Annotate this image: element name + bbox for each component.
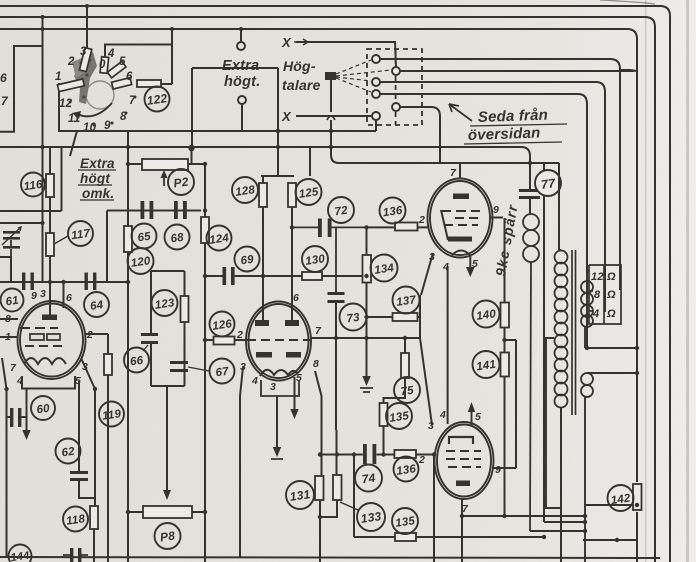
capacitor 74 [363, 444, 376, 464]
svg-text:omk.: omk. [82, 186, 114, 201]
secondary upper leads [585, 271, 589, 348]
wire left loop to x45 [0, 46, 43, 132]
svg-text:högt: högt [80, 171, 110, 186]
svg-text:144: 144 [10, 550, 30, 562]
svg-text:Ω: Ω [606, 271, 616, 283]
V3 pin5 ground arrow [469, 256, 471, 271]
wire speaker line y71 to 637 [400, 70, 634, 72]
label circle 136b [394, 457, 419, 482]
resistor 135a [380, 403, 388, 426]
wire vertical x172 [171, 29, 173, 84]
resistor 128 [259, 183, 267, 207]
bus y131 [59, 130, 376, 132]
svg-text:X: X [281, 35, 292, 50]
label circle 124 [207, 226, 232, 251]
dot contact marks [69, 96, 137, 127]
V3 pin9 wire [491, 217, 503, 219]
wire vertical x278 [277, 68, 279, 176]
trimmer capacitor left edge 2 [3, 246, 20, 249]
label Extra hogt [222, 58, 260, 90]
svg-text:66: 66 [129, 355, 144, 369]
tube V1 grid dashes [20, 328, 66, 364]
svg-text:4: 4 [592, 308, 599, 320]
capacitor 66 [141, 333, 158, 344]
wire vertical x263 [262, 176, 264, 320]
resistor 130 [302, 272, 322, 280]
svg-text:2: 2 [236, 329, 243, 341]
label circle 119 [99, 402, 124, 427]
tube V2 grid dash row [247, 339, 310, 341]
svg-text:122: 122 [146, 91, 168, 108]
capacitor 64 [85, 273, 97, 291]
svg-text:4: 4 [107, 48, 115, 60]
faint scan streak [645, 0, 646, 562]
wire y537 right tail [434, 536, 544, 538]
wire 140/141 node to x516 [505, 339, 517, 341]
switch hatched sector [74, 52, 97, 104]
svg-text:1: 1 [55, 71, 62, 83]
output taps box [589, 265, 621, 324]
wire speaker line y94 to x587 [380, 94, 587, 348]
V4 pin7 wire [461, 498, 463, 562]
svg-text:talare: talare [282, 77, 321, 93]
label circle 120 [128, 248, 154, 274]
wire switch to label [70, 131, 77, 156]
capacitor 61 [22, 273, 34, 291]
scan edge streak right [686, 0, 689, 562]
label circle P2 [168, 169, 194, 195]
wire x191.5 drop to P2 lead [191, 148, 193, 164]
wire x559 to transformer primary [558, 163, 560, 250]
svg-text:64: 64 [89, 299, 104, 313]
wire switchbox right to node [192, 67, 278, 69]
label circle 64 [84, 292, 109, 317]
resistor 137 [393, 313, 418, 321]
svg-text:2: 2 [418, 214, 425, 226]
capacitor 67 [170, 361, 188, 372]
resistor 120 [124, 226, 132, 252]
V2 cathode wire + ground [276, 396, 278, 449]
wire node y176 [261, 175, 294, 177]
svg-text:översidan: översidan [468, 124, 541, 144]
label circle 135a [386, 403, 412, 429]
tube V3 grid rows [441, 210, 480, 240]
V2 pin5 ground [294, 377, 296, 411]
speaker element [325, 72, 336, 80]
resistor 124 [201, 217, 209, 243]
label circle 66 [124, 348, 149, 373]
wire vertical x310 [309, 147, 311, 176]
tube V2 cathode bars [256, 352, 272, 358]
wire vertical x128 [127, 131, 129, 562]
resistor 116 [46, 174, 54, 197]
wire x354 down [354, 455, 434, 562]
svg-text:11: 11 [68, 113, 80, 125]
V2 cathode box below [261, 380, 299, 396]
tube V2 pin labels [236, 292, 322, 393]
label circle 136 [380, 198, 406, 224]
capacitor bottom edge left [70, 548, 81, 562]
wire y348 [585, 347, 637, 349]
wire resistor122 to x172 [160, 83, 172, 85]
leader 133 [340, 502, 358, 510]
wire node y516 to transformer [462, 515, 585, 517]
resistor 122 [137, 80, 161, 87]
svg-text:9: 9 [493, 204, 499, 216]
label circle 118 [63, 507, 88, 532]
label circle 74 [355, 465, 382, 492]
svg-text:P2: P2 [173, 174, 190, 190]
resistor 75 [401, 353, 409, 378]
svg-text:62: 62 [61, 446, 76, 460]
svg-text:P8: P8 [159, 528, 176, 544]
svg-text:3: 3 [428, 420, 434, 432]
tube V1 heater humps [24, 358, 66, 364]
svg-text:6: 6 [293, 292, 299, 304]
switch rotor arrow [77, 103, 112, 116]
tube V4 pin labels [418, 409, 501, 515]
wire vertical x107 heater [107, 334, 109, 562]
V4 pin5 up arrow [471, 408, 473, 425]
svg-text:65: 65 [137, 231, 152, 245]
label circle 67 [210, 359, 235, 384]
label circle 128 [232, 177, 258, 203]
label circle 65 [132, 224, 157, 249]
secondary lower leads [585, 373, 637, 562]
tube V1 anode [42, 315, 57, 321]
capacitor 72 [318, 219, 332, 238]
V2 shield wire left [240, 367, 243, 557]
svg-text:68: 68 [170, 232, 185, 246]
wire extra-hogt bottom terminal [241, 104, 243, 131]
label circle 75 [394, 377, 420, 403]
svg-text:7: 7 [450, 167, 457, 179]
svg-text:67: 67 [215, 366, 230, 380]
svg-text:8: 8 [313, 358, 319, 370]
wire x107 drop [106, 211, 108, 283]
svg-text:Hög-: Hög- [283, 58, 316, 74]
svg-text:60: 60 [36, 403, 51, 417]
svg-text:3: 3 [270, 381, 276, 393]
wire vertical x205 [204, 164, 206, 562]
wire P8 wiper riser [166, 386, 168, 492]
svg-text:högt.: högt. [224, 74, 260, 90]
label circle 116 [21, 173, 45, 197]
V1 pin wires [0, 282, 108, 557]
svg-text:9: 9 [495, 464, 501, 476]
tube V2 envelope [246, 302, 311, 381]
svg-text:X: X [281, 109, 292, 124]
wire node y276 [205, 275, 367, 277]
label circle 61 [1, 289, 24, 312]
Extra hogt terminal bottom [238, 96, 246, 104]
tube V3 anode top cap [453, 194, 469, 200]
wire v3 pin2 [367, 226, 430, 228]
label circle 133 [357, 503, 385, 531]
transformer secondary upper [581, 281, 593, 327]
X wire top [296, 42, 396, 67]
wire left stub y223 [0, 222, 43, 224]
wire vertical x45 [42, 17, 44, 282]
tube V4 cathode [456, 481, 470, 487]
transformer primary ends [559, 250, 561, 562]
label circle 69 [235, 247, 260, 272]
svg-text:69: 69 [240, 254, 255, 268]
label circle 140 [473, 301, 500, 328]
transformer core [572, 250, 576, 415]
V2 shield wire right [315, 371, 322, 476]
capacitor 69 [223, 267, 235, 285]
svg-text:2: 2 [67, 56, 75, 68]
label circle 125 [296, 179, 322, 205]
svg-text:9: 9 [31, 290, 37, 302]
svg-text:7: 7 [1, 94, 9, 108]
svg-text:9: 9 [104, 120, 111, 132]
wire y522 [544, 521, 585, 523]
wire jut 620 to 637 with pointed junction [620, 70, 637, 71]
resistor 123 [181, 296, 189, 322]
svg-text:5: 5 [119, 56, 126, 68]
V3 pin4 wire down to V4 [447, 266, 449, 424]
svg-text:Ω: Ω [606, 289, 616, 301]
wire V4 pin3 diagonal [420, 338, 432, 425]
label circle 62 [56, 439, 81, 464]
label circle 68 [165, 225, 190, 250]
svg-text:133: 133 [360, 509, 382, 526]
tube V1 pin labels [5, 288, 93, 387]
wire chain x50 [49, 147, 51, 316]
resistor 136 [395, 223, 418, 231]
svg-text:0: 0 [99, 59, 106, 71]
bottom border line [0, 557, 660, 558]
speaker dashed leads [336, 60, 391, 92]
label circle 142 [608, 485, 634, 511]
tube V3 heater bump [452, 251, 470, 256]
switch contact bars [57, 48, 131, 92]
label Seda fran oversidan [468, 107, 549, 144]
svg-text:131: 131 [289, 487, 311, 504]
wire speaker line y82 to x605 [380, 82, 605, 312]
border line 3 [0, 29, 637, 482]
label circle 122 [145, 87, 170, 112]
wire node y454 [320, 454, 433, 456]
wire cap62 to resistor118 [79, 481, 94, 562]
svg-text:61: 61 [5, 295, 20, 309]
box around 123/66 [151, 271, 185, 386]
label circle 130 [302, 246, 328, 272]
wire vertical x87 [86, 6, 88, 55]
tube V3 envelope [428, 179, 493, 258]
svg-text:7: 7 [10, 362, 17, 374]
label circle 73 [340, 304, 367, 331]
speaker terminal circles [372, 55, 400, 120]
wire V2 pin7 row y338 [311, 337, 420, 339]
node wire y210.5 [107, 210, 201, 212]
resistor 133 [333, 475, 342, 500]
tube V2 heater humps [260, 370, 297, 376]
svg-text:6: 6 [66, 292, 72, 304]
transformer primary winding [555, 251, 568, 408]
Extra hogt terminal top [237, 42, 245, 50]
wire cap73 down [335, 303, 337, 430]
wire y540 lower right [583, 539, 637, 541]
svg-text:4: 4 [439, 409, 446, 421]
V4 pin9 wire [492, 340, 516, 468]
P2 wiper arrow [163, 174, 165, 186]
svg-text:7: 7 [315, 325, 322, 337]
resistor 126 [214, 337, 235, 345]
ground arrow below 134 [362, 376, 370, 386]
potentiometer P8 [143, 506, 192, 518]
tube V2 anodes [255, 320, 269, 326]
svg-text:3: 3 [80, 46, 87, 58]
border line 1b cut corner from scan top [600, 0, 655, 4]
bus y147 [0, 147, 530, 163]
V3 pin3 wire [421, 253, 433, 295]
resistor 134 [363, 255, 372, 283]
label circle P8 [155, 523, 181, 549]
resistor 141 [501, 353, 510, 377]
wire left stub y257 [0, 257, 11, 282]
resistor 140 [501, 303, 510, 328]
capacitor 62 [70, 471, 88, 481]
label Extra hogt omk box [78, 156, 116, 201]
resistor 135b [395, 533, 416, 541]
label circle 123 [152, 290, 178, 316]
label circle 141 [473, 351, 500, 378]
X wire bottom [296, 115, 372, 117]
resistor 125 [288, 183, 296, 207]
seda arrow [449, 104, 472, 121]
ground arrow below cap60 [22, 430, 30, 440]
V3 anode wire [339, 163, 559, 424]
svg-text:Extra: Extra [80, 156, 115, 171]
wire extra-hogt top terminal [240, 29, 242, 42]
svg-text:Ω: Ω [606, 308, 616, 320]
wire bus131 up to C6 [375, 120, 377, 131]
junction node anode/trap [528, 161, 532, 165]
secondary taps to box [589, 291, 593, 311]
wire y531 [530, 530, 585, 532]
label circle 126 [210, 312, 235, 337]
speaker plug dashed box [367, 49, 422, 125]
svg-text:8: 8 [594, 289, 601, 301]
svg-text:72: 72 [334, 205, 349, 219]
resistor 136b [394, 450, 416, 458]
wire contact4 riser [105, 45, 172, 61]
wire y505 [585, 504, 637, 506]
svg-text:6: 6 [126, 71, 133, 83]
label circle 135b [392, 508, 418, 534]
resistor 118 [90, 506, 98, 529]
wire x544 riser [543, 163, 545, 522]
svg-text:12: 12 [591, 271, 604, 283]
label circle 60 [31, 396, 55, 420]
svg-text:3: 3 [40, 288, 46, 300]
switch box outline [59, 68, 192, 148]
svg-text:7: 7 [462, 503, 469, 515]
wire C5 to seda [400, 107, 440, 163]
svg-text:74: 74 [361, 471, 377, 487]
resistor 131 [315, 476, 324, 500]
transformer primary tap [546, 338, 561, 508]
svg-text:4: 4 [251, 375, 258, 387]
inductor 9kc trap coil [523, 214, 539, 531]
potentiometer P2 [142, 159, 188, 170]
svg-text:Extra: Extra [222, 58, 259, 74]
svg-text:75: 75 [400, 385, 415, 399]
wire left stub y211 [0, 147, 62, 211]
tube V3 cathode [448, 237, 472, 242]
capacitor 65 [141, 201, 154, 219]
label circle 144 bottom left [9, 545, 32, 562]
resistor 119 [104, 354, 112, 375]
capacitor 60 [10, 408, 21, 427]
tube V3 pin labels [418, 167, 499, 273]
svg-text:12: 12 [59, 98, 73, 110]
transformer secondary lower [581, 373, 593, 397]
label circle 134 [371, 255, 398, 282]
rotary switch S1 [86, 81, 114, 109]
wire speaker line to x620 [380, 59, 620, 290]
tube V4 envelope [435, 422, 494, 499]
svg-text:Seda från: Seda från [478, 107, 549, 126]
wire 125 down to V2 pin6 [291, 207, 293, 320]
tube V4 top anode bracket [449, 437, 473, 444]
resistor 117 [46, 233, 54, 256]
bus y282 [0, 281, 128, 283]
svg-text:2: 2 [418, 454, 425, 466]
label Hog-talare [282, 58, 321, 93]
border line 3 lower continues below resistor 142 [636, 512, 638, 562]
label circle 77 [535, 170, 561, 196]
svg-text:5: 5 [475, 411, 481, 423]
tube V4 grids [446, 451, 481, 467]
label circle 72 [328, 197, 354, 223]
speaker drop wire [296, 42, 440, 163]
switch position numbers [55, 46, 136, 134]
label circle 117 [68, 221, 93, 246]
svg-text:77: 77 [540, 176, 557, 192]
trimmer capacitor left edge [3, 231, 20, 240]
label circle 137 [393, 287, 420, 314]
capacitor 68 [174, 201, 187, 219]
resistor 142 [633, 484, 642, 510]
label circle 131 [286, 481, 314, 509]
svg-text:6: 6 [0, 71, 7, 85]
capacitor 9kc trap [519, 189, 540, 199]
capacitor 73 [328, 292, 345, 303]
wire node y317 [367, 295, 421, 338]
tube V1 envelope [18, 301, 86, 379]
svg-text:73: 73 [346, 312, 361, 326]
